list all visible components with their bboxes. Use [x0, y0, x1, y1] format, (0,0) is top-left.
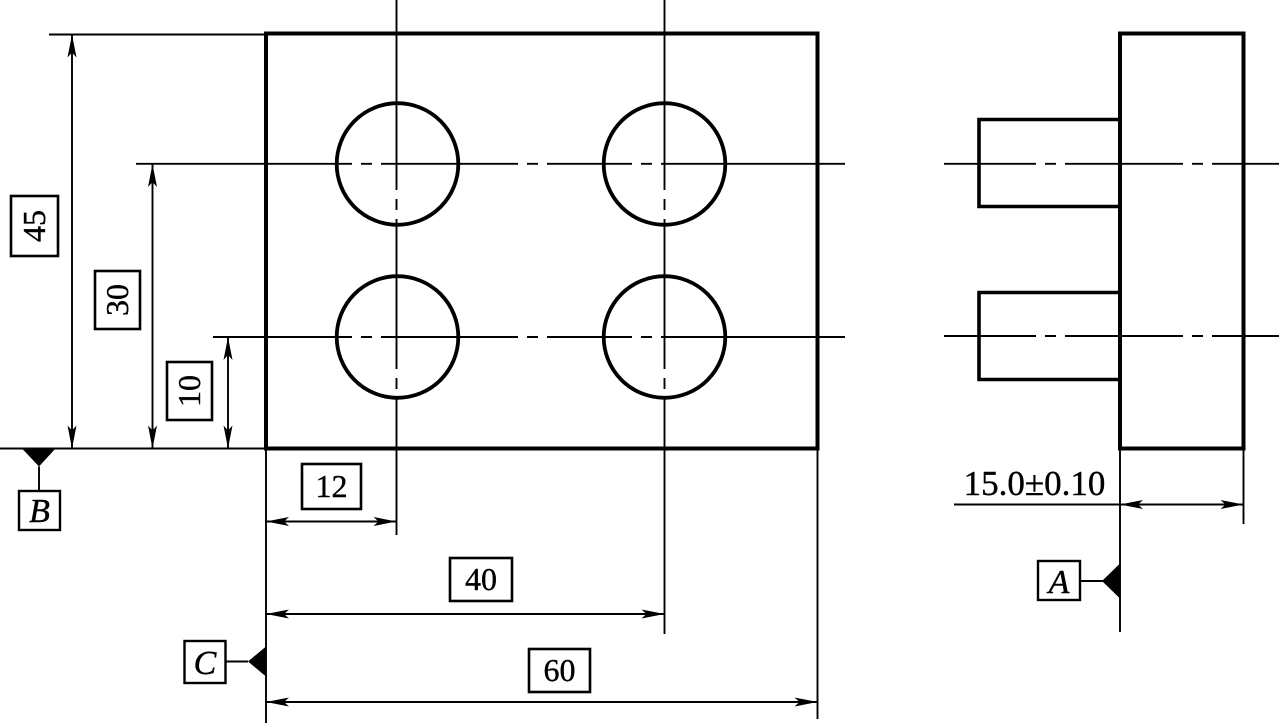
svg-text:45: 45: [16, 210, 52, 242]
svg-text:A: A: [1047, 564, 1070, 601]
svg-text:15.0±0.10: 15.0±0.10: [964, 464, 1106, 503]
svg-text:60: 60: [544, 652, 576, 688]
svg-text:C: C: [194, 645, 217, 682]
svg-text:B: B: [29, 493, 50, 530]
svg-text:12: 12: [316, 468, 348, 504]
svg-text:40: 40: [465, 561, 497, 597]
svg-text:10: 10: [171, 375, 207, 407]
svg-text:30: 30: [99, 284, 135, 316]
